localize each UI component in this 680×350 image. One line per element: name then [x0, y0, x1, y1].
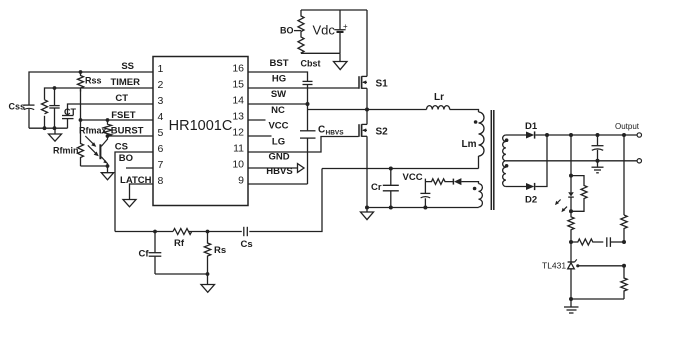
resistor Rbo1 (upper divider)	[298, 10, 304, 32]
label Rfmin	[53, 146, 79, 156]
net label GND	[268, 152, 289, 163]
net label BST	[270, 58, 289, 69]
wire Cf-Rs bottom	[155, 273, 208, 275]
svg-text:BURST: BURST	[111, 126, 144, 137]
ground (Vdc)	[334, 53, 348, 69]
svg-text:1: 1	[158, 63, 164, 75]
U1 pin 13 number	[232, 111, 244, 123]
wire feedback divider drop	[570, 135, 572, 176]
svg-text:LG: LG	[272, 137, 285, 148]
node secondary dot top	[505, 138, 509, 142]
wire output plus rail	[535, 134, 637, 136]
capacitor CHBVS	[300, 131, 316, 184]
terminal output plus	[637, 133, 641, 137]
wire CT pin3	[68, 104, 154, 115]
label Rs	[214, 245, 226, 256]
svg-text:14: 14	[232, 95, 244, 107]
svg-text:S1: S1	[376, 79, 389, 90]
U1 pin 12 number	[232, 127, 244, 139]
node Cr-rail junction	[389, 206, 393, 210]
node FSET-Rfmax junction	[106, 118, 110, 122]
svg-text:FSET: FSET	[111, 110, 135, 121]
node emitter-rail junction	[106, 164, 110, 168]
net label BURST	[111, 126, 144, 137]
wire VCC stub vertical	[424, 179, 426, 208]
label S1	[376, 79, 389, 90]
shunt regulator TL431	[568, 242, 577, 299]
resistor R-led (parallel)	[571, 176, 587, 212]
svg-text:Lr: Lr	[434, 92, 444, 103]
wire BO pin7 stub	[126, 167, 153, 169]
svg-text:16: 16	[232, 63, 244, 75]
svg-text:Vdc: Vdc	[313, 23, 336, 38]
U1 pin 10 number	[232, 159, 244, 171]
wire SS pin1	[29, 72, 153, 105]
net label BO pin7	[119, 153, 133, 164]
svg-text:CT: CT	[64, 107, 76, 117]
net label CT pin3	[115, 93, 128, 104]
inductor aux winding	[479, 184, 483, 208]
label BO (top)	[280, 26, 294, 36]
svg-text:D1: D1	[525, 121, 538, 132]
node D2-rail junction	[545, 133, 549, 137]
node SS-Rss junction	[79, 70, 83, 74]
ground (LATCH)	[123, 200, 136, 207]
svg-text:Cf: Cf	[139, 249, 150, 260]
U1 pin 11 number	[233, 143, 244, 155]
node outcap top junction	[596, 133, 600, 137]
ground (power rail)	[361, 208, 374, 220]
label Output	[615, 122, 640, 131]
node opto-LED bottom junction	[569, 209, 573, 213]
capacitor Cvcc	[420, 193, 430, 198]
svg-text:VCC: VCC	[268, 121, 288, 132]
earth ground (TL431)	[564, 299, 579, 313]
label Rss	[85, 76, 102, 86]
wire TL431 bottom rail	[571, 298, 624, 300]
wire S2 drain	[366, 110, 368, 125]
wire HBVS pin9	[248, 183, 308, 185]
wire secondary bottom lead	[506, 186, 526, 188]
label Cf	[139, 249, 150, 260]
wire S2 source	[366, 136, 368, 207]
svg-text:13: 13	[232, 111, 244, 123]
optocoupler phototransistor Q	[100, 136, 107, 166]
inductor Lm (primary)	[479, 112, 485, 169]
svg-text:VCC: VCC	[403, 172, 423, 183]
resistor Rs	[204, 232, 210, 274]
net label NC	[271, 105, 285, 116]
IC U1 HR1001C body	[153, 57, 248, 206]
node secondary dot bottom	[505, 164, 509, 168]
wire HG pin15	[248, 87, 359, 89]
node feedback divider top	[569, 133, 573, 137]
svg-text:Rs: Rs	[214, 245, 226, 256]
node Lm polarity dot	[474, 120, 478, 124]
svg-text:Lm: Lm	[462, 139, 477, 150]
label Vdc	[313, 23, 336, 38]
label Cr	[371, 182, 382, 193]
node sense-Rs junction	[206, 230, 210, 234]
resistor Rt (timer)	[42, 100, 48, 128]
U1 pin 9 number	[238, 175, 244, 187]
wire BST pin16	[248, 72, 308, 81]
net label LG	[272, 137, 285, 148]
capacitor Cs	[244, 227, 248, 236]
wire sense divider drop	[623, 135, 625, 215]
svg-text:HR1001C: HR1001C	[169, 118, 233, 134]
label battery plus	[343, 22, 348, 31]
label Rfmax	[79, 126, 107, 136]
opto light arrow 1	[85, 136, 96, 147]
diode D2	[526, 183, 535, 190]
svg-text:Css: Css	[9, 102, 26, 112]
capacitor Cbst	[303, 81, 313, 130]
capacitor Ccomp	[607, 237, 624, 247]
svg-text:5: 5	[158, 127, 164, 139]
wire D2 cathode riser	[535, 135, 547, 187]
inductor secondary winding	[503, 135, 506, 187]
label Css	[9, 102, 26, 112]
wire CS pin6	[115, 152, 153, 232]
svg-text:11: 11	[233, 143, 244, 155]
node TL431 ref dot	[576, 264, 579, 267]
net label CS	[115, 142, 128, 153]
node rail-Rt junction	[43, 126, 47, 130]
diode D1	[526, 131, 535, 138]
label Cs	[241, 239, 253, 250]
svg-text:NC: NC	[271, 105, 285, 116]
resistor Rss	[78, 72, 84, 120]
wire current-sense line	[115, 169, 322, 232]
svg-text:8: 8	[158, 175, 164, 187]
svg-text:7: 7	[158, 159, 164, 171]
net label VCC pin12	[268, 121, 288, 132]
wire soft-start ground rail	[29, 127, 68, 129]
diode Dvcc	[453, 178, 478, 185]
battery Vdc	[334, 10, 345, 53]
label D1	[525, 121, 538, 132]
svg-text:Rf: Rf	[174, 238, 185, 249]
capacitor Cout	[592, 135, 604, 161]
svg-text:CS: CS	[115, 142, 128, 153]
capacitor Cr	[383, 169, 399, 208]
wire secondary top lead	[506, 134, 526, 136]
resistor Rvcc	[425, 179, 453, 185]
node FSET-Rfmin junction	[79, 118, 83, 122]
node Cr tap	[389, 167, 393, 171]
U1 pin 5 number	[158, 127, 164, 139]
wire S1 drain rail	[366, 10, 368, 76]
svg-text:Rss: Rss	[85, 76, 102, 86]
node half-bridge	[365, 108, 369, 112]
earth ground (output)	[592, 161, 604, 173]
node opto-LED top junction	[569, 174, 573, 178]
capacitor Css	[24, 105, 35, 128]
opto emission arrow 2	[561, 207, 567, 213]
wire BO tap dash	[294, 30, 301, 32]
U1 pin 16 number	[232, 63, 244, 75]
wire S1 source to HB node	[366, 88, 368, 109]
wire Lm return to Cs corner	[322, 168, 479, 170]
U1 pin 14 number	[232, 95, 244, 107]
label Cbst	[301, 59, 321, 69]
svg-text:Cr: Cr	[371, 182, 382, 193]
label D2	[525, 195, 537, 206]
svg-text:4: 4	[158, 111, 164, 123]
wire divider bottom	[301, 52, 340, 54]
net label LATCH	[120, 175, 152, 186]
svg-text:3: 3	[158, 95, 164, 107]
node VCC-rail junction	[423, 206, 427, 210]
node compensation tap left	[569, 240, 573, 244]
resistor Rfmin	[78, 120, 84, 166]
label S2	[376, 127, 389, 138]
U1 pin 6 number	[158, 143, 164, 155]
label Rf	[174, 238, 185, 249]
svg-text:6: 6	[158, 143, 164, 155]
svg-text:GND: GND	[268, 152, 289, 163]
svg-text:Cbst: Cbst	[301, 59, 321, 69]
U1 pin 7 number	[158, 159, 164, 171]
capacitor Cf	[149, 232, 162, 275]
ground (sense network)	[201, 274, 215, 292]
svg-text:12: 12	[232, 127, 244, 139]
wire Vdc top rail	[301, 9, 367, 11]
wire primary ground rail	[367, 207, 479, 209]
svg-text:Cs: Cs	[241, 239, 253, 250]
svg-text:SS: SS	[121, 61, 134, 72]
wire TL431 ref	[578, 265, 624, 267]
wire LATCH pin8	[130, 184, 154, 200]
svg-text:+: +	[343, 22, 348, 31]
node sense-Cf junction	[153, 230, 157, 234]
wire GND pin10	[248, 167, 298, 169]
resistor Rbo2 (lower divider)	[298, 32, 304, 54]
svg-text:HG: HG	[272, 74, 286, 85]
svg-text:Rfmax: Rfmax	[79, 126, 107, 136]
diode opto LED	[568, 176, 574, 212]
wire NC pin13 stub	[248, 119, 266, 121]
opto emission arrow 1	[555, 200, 561, 206]
wire LG pin11	[248, 137, 359, 153]
U1 pin 3 number	[158, 95, 164, 107]
label CT	[64, 107, 76, 117]
wire secondary center tap rail	[506, 160, 637, 162]
svg-text:TL431: TL431	[542, 261, 566, 271]
resistor R-div-upper	[621, 215, 627, 242]
net label SS	[121, 61, 134, 72]
net label TIMER	[110, 77, 140, 88]
svg-text:C: C	[318, 125, 325, 136]
node TIMER-cap junction	[53, 86, 57, 90]
svg-text:CT: CT	[115, 93, 128, 104]
wire BURST pin5	[108, 135, 154, 137]
net label FSET	[111, 110, 135, 121]
wire TIMER pin2	[45, 88, 154, 100]
svg-text:SW: SW	[271, 89, 286, 100]
label CHBVS	[318, 125, 344, 137]
U1 pin 1 number	[158, 63, 164, 75]
label Lr	[434, 92, 444, 103]
inductor Lr	[427, 106, 450, 110]
resistor Rfmax	[104, 120, 112, 136]
node TL431 anode-rail junction	[569, 297, 573, 301]
node BURST-Rfmax-collector junction	[106, 134, 110, 138]
resistor Rf	[173, 229, 192, 235]
svg-text:HBVS: HBVS	[326, 130, 345, 137]
resistor Rcomp	[571, 239, 603, 245]
node Rs-bottom junction	[206, 272, 210, 276]
U1 pin 4 number	[158, 111, 164, 123]
svg-text:9: 9	[238, 175, 244, 187]
svg-text:BO: BO	[119, 153, 133, 164]
svg-text:S2: S2	[376, 127, 389, 138]
node S2 source - ground rail	[365, 206, 369, 210]
node outcap bottom junction	[596, 159, 600, 163]
node SW junction	[306, 102, 310, 106]
gnd arrow (pin10)	[298, 164, 305, 173]
node rail-Ct junction	[53, 126, 57, 130]
ground (left rail)	[49, 128, 62, 141]
U1 pin 2 number	[158, 79, 164, 91]
node sense divider top	[622, 133, 626, 137]
ground (opto emitter)	[101, 166, 113, 180]
transformer core	[491, 110, 494, 210]
label Lm	[462, 139, 477, 150]
capacitor CT	[62, 116, 74, 129]
wire FSET pin4	[81, 119, 154, 121]
node ref-divider junction	[622, 264, 626, 268]
resistor R-div-lower	[621, 266, 627, 299]
svg-text:D2: D2	[525, 195, 537, 206]
wire HB to Lr	[367, 109, 427, 111]
svg-text:TIMER: TIMER	[110, 77, 140, 88]
resistor R-fb-upper	[568, 211, 574, 242]
opto light arrow 2	[88, 145, 99, 156]
svg-text:10: 10	[232, 159, 244, 171]
net label HBVS	[266, 166, 292, 177]
wire Lr to Lm	[450, 110, 479, 113]
label VCC (aux net)	[403, 172, 423, 183]
node aux polarity dot	[473, 187, 477, 191]
transistor S2	[359, 124, 367, 137]
svg-text:2: 2	[158, 79, 164, 91]
capacitor Ct (timer)	[49, 88, 59, 128]
wire opto emitter rail	[81, 165, 108, 167]
svg-text:Output: Output	[615, 122, 640, 131]
U1 pin 8 number	[158, 175, 164, 187]
wire half-bridge node	[308, 109, 368, 111]
transistor S1	[359, 76, 367, 89]
svg-text:15: 15	[232, 79, 244, 91]
net label SW	[271, 89, 286, 100]
label TL431	[542, 261, 566, 271]
svg-text:BO: BO	[280, 26, 294, 36]
terminal output return	[637, 159, 641, 163]
svg-text:BST: BST	[270, 58, 289, 69]
svg-text:Rfmin: Rfmin	[53, 146, 79, 156]
net label HG	[272, 74, 286, 85]
wire SW pin14	[248, 103, 308, 105]
U1 pin 15 number	[232, 79, 244, 91]
node compensation tap right	[622, 240, 626, 244]
wire VCC pin12 stub	[248, 135, 272, 137]
